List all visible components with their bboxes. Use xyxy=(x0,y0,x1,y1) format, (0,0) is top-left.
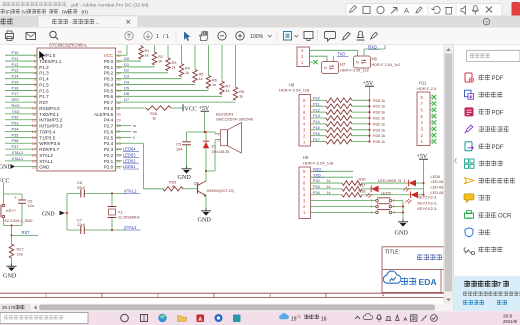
U1 pin 12 (INT0#/P3.2) xyxy=(5,119,37,121)
svg-text:P0.5: P0.5 xyxy=(104,88,114,93)
svg-text:10u: 10u xyxy=(28,203,35,208)
svg-text:1N4148-35: 1N4148-35 xyxy=(212,150,230,154)
svg-text:104: 104 xyxy=(176,146,183,151)
svg-text:P35: P35 xyxy=(12,132,19,137)
ground below Q5 xyxy=(205,195,207,208)
net labels LED64..LED61 on P2.3..P2.0 xyxy=(116,148,123,150)
svg-text:16: 16 xyxy=(321,316,327,322)
menu bar xyxy=(1,9,5,14)
VCC pin 40 wire xyxy=(116,54,128,56)
svg-text:rw: rw xyxy=(133,130,137,134)
svg-text:P0.0: P0.0 xyxy=(104,59,114,64)
svg-text:P33: P33 xyxy=(313,185,320,189)
svg-text:+: + xyxy=(14,195,17,200)
svg-text:P2.3: P2.3 xyxy=(104,147,114,152)
U1 pin 3 (P1.2) xyxy=(5,66,37,68)
svg-text:16: 16 xyxy=(32,141,36,146)
no-connect pin 1 xyxy=(310,61,314,63)
svg-text:D3: D3 xyxy=(124,74,130,79)
svg-text:7: 7 xyxy=(498,281,502,288)
svg-text:8: 8 xyxy=(34,94,36,99)
wire RXD (H9) xyxy=(311,170,354,172)
svg-text:P2.0: P2.0 xyxy=(104,165,114,170)
svg-text:OCR: OCR xyxy=(498,214,512,220)
weather + tray xyxy=(279,313,289,319)
U1 pin 5 (P1.4) xyxy=(5,78,37,80)
svg-text:P13: P13 xyxy=(12,68,19,73)
svg-text:P14: P14 xyxy=(313,120,320,124)
svg-text:1k: 1k xyxy=(212,82,216,87)
svg-text:R33 1k: R33 1k xyxy=(373,128,385,132)
svg-text:TXD: TXD xyxy=(313,172,321,177)
svg-text:P16: P16 xyxy=(313,132,320,136)
tab bar xyxy=(0,16,520,28)
svg-text:RXD: RXD xyxy=(368,44,377,49)
svg-text:(V): (V) xyxy=(22,9,29,14)
svg-text:RXD/P3.0: RXD/P3.0 xyxy=(39,106,60,111)
svg-text:INT0#/P3.2: INT0#/P3.2 xyxy=(39,118,62,123)
U1 pin 11 (TXD/P3.1) xyxy=(5,113,37,115)
LED rail xyxy=(423,183,425,195)
svg-text:XTAL1: XTAL1 xyxy=(39,159,53,164)
resistor R6 1k pull-up on P0.5 xyxy=(116,89,209,91)
svg-text:HDR-F-2.54_1x2: HDR-F-2.54_1x2 xyxy=(372,63,401,67)
svg-text:XTAL1: XTAL1 xyxy=(12,156,24,161)
taskbar icons xyxy=(121,314,129,322)
svg-text:P32: P32 xyxy=(12,115,19,120)
U1 pin 15 (T1/P3.5) xyxy=(5,136,37,138)
vertical scrollbar xyxy=(444,45,453,305)
svg-text:P17: P17 xyxy=(12,91,19,96)
svg-text:?: ? xyxy=(485,20,488,25)
svg-text:1: 1 xyxy=(371,210,373,214)
svg-text:P1.6: P1.6 xyxy=(39,88,49,93)
svg-text:29.178: 29.178 xyxy=(2,305,16,310)
svg-text:STC89C52RC/40I-L: STC89C52RC/40I-L xyxy=(49,43,88,48)
resistor R30 1k on P12 xyxy=(311,111,327,113)
svg-text:X1: X1 xyxy=(118,209,123,214)
svg-text:e: e xyxy=(133,136,135,140)
svg-text:1k: 1k xyxy=(172,64,176,69)
svg-text:P0.1: P0.1 xyxy=(104,65,114,70)
push button KEY4 K2-3.6X6.1 on P37 xyxy=(311,211,376,213)
svg-text:P32: P32 xyxy=(313,179,320,183)
resistor R27 10k xyxy=(11,235,13,244)
svg-text:12: 12 xyxy=(32,117,36,122)
U1 pin 9 (RST) xyxy=(5,101,37,103)
svg-text:R36: R36 xyxy=(359,178,366,182)
VCC net flag xyxy=(182,104,184,111)
svg-text:3: 3 xyxy=(269,294,271,298)
LED5 (row P33) xyxy=(362,188,371,190)
svg-text:P0.7: P0.7 xyxy=(104,100,114,105)
svg-text:100%: 100% xyxy=(250,34,264,40)
svg-text:1: 1 xyxy=(156,34,159,40)
svg-text:1k: 1k xyxy=(239,94,243,99)
U1 pin 18 (XTAL2) xyxy=(5,154,37,156)
svg-text:R32 1k: R32 1k xyxy=(373,122,385,126)
svg-text:P2.2: P2.2 xyxy=(104,153,114,158)
svg-text:RXD: RXD xyxy=(12,103,20,108)
svg-text:1: 1 xyxy=(371,199,373,203)
crystal X1 11.0592MHz xyxy=(111,193,113,206)
U1 pin 17 (RD#/P3.7) xyxy=(5,148,37,150)
svg-text:P36: P36 xyxy=(12,138,19,143)
svg-text:P2.1: P2.1 xyxy=(104,159,114,164)
svg-text:2: 2 xyxy=(34,59,36,64)
resistor R1 1k pull-up on P0.0 xyxy=(116,60,142,62)
svg-text:D4: D4 xyxy=(124,79,130,84)
svg-text:GND: GND xyxy=(42,212,55,218)
svg-text:P34: P34 xyxy=(313,191,320,195)
svg-text:P12: P12 xyxy=(12,62,19,67)
resistor R4 1k pull-up on P0.3 xyxy=(116,78,182,80)
reset top wire xyxy=(4,193,23,195)
svg-text:KEY3 K2-3.: KEY3 K2-3. xyxy=(418,201,438,205)
svg-text:29: 29 xyxy=(117,117,121,122)
svg-text:R35 1k: R35 1k xyxy=(373,140,385,144)
svg-text:GND: GND xyxy=(178,174,192,181)
svg-text:VCC: VCC xyxy=(0,179,10,185)
resistor R26 1k to VCC flag xyxy=(116,107,147,109)
wire P2.4 to transistor base xyxy=(116,142,144,144)
svg-text:P0.3: P0.3 xyxy=(104,77,114,82)
resistor R2 1k pull-up on P0.1 xyxy=(116,66,155,68)
U1 pin 2 (T2EX/P1.1) xyxy=(5,60,37,62)
main toolbar xyxy=(0,28,520,45)
U1 pin 6 (P1.5) xyxy=(5,84,37,86)
svg-text:P33: P33 xyxy=(12,121,19,126)
mouse cursor xyxy=(39,51,46,61)
svg-text:LED64: LED64 xyxy=(123,147,136,152)
resistor R36 1k on P32 xyxy=(311,182,343,184)
buzzer +5V rail wire xyxy=(187,131,216,133)
svg-text:P34: P34 xyxy=(12,126,20,131)
U1 pin 8 (P1.7) xyxy=(5,95,37,97)
tools panel xyxy=(454,45,520,276)
push button KEY3 K2-3.6X6.1 on P36 xyxy=(311,206,376,208)
header H6 HDR-F-2.54_1x2 xyxy=(354,56,371,68)
svg-text:TXD: TXD xyxy=(12,109,20,114)
svg-text:KEY4 K2-3.: KEY4 K2-3. xyxy=(418,207,438,211)
svg-text:KEY?: KEY? xyxy=(6,208,17,213)
diode D1 1N4148 xyxy=(205,132,207,141)
svg-text:.pdf - Adobe Acrobat Pro DC (3: .pdf - Adobe Acrobat Pro DC (32-bit) xyxy=(70,2,149,8)
svg-text:RD#/P3.7: RD#/P3.7 xyxy=(39,147,59,152)
resistor R37 1k on P33 xyxy=(311,188,343,190)
U1 pin 1 (T2/P1.0) xyxy=(5,54,37,56)
svg-text:1k: 1k xyxy=(158,58,162,63)
svg-text:5: 5 xyxy=(34,76,36,81)
svg-text:XTAL2: XTAL2 xyxy=(39,153,53,158)
svg-text:LED-0805_R_1: LED-0805_R_1 xyxy=(378,178,406,183)
LED (row P34) xyxy=(362,194,411,196)
svg-text:RST: RST xyxy=(12,97,20,102)
U1 pin 4 (P1.3) xyxy=(5,72,37,74)
svg-text:rs: rs xyxy=(133,124,136,128)
resistor R7 1k pull-up on P0.6 xyxy=(116,95,223,97)
svg-text:H9: H9 xyxy=(303,155,309,160)
capacitor C6 10u electrolytic xyxy=(21,194,23,200)
svg-text:A: A xyxy=(198,317,202,323)
svg-text:P11: P11 xyxy=(313,102,319,106)
svg-text:1: 1 xyxy=(371,205,373,209)
resistor R5 1k pull-up on P0.4 xyxy=(116,84,196,86)
svg-text:R29 1k: R29 1k xyxy=(373,105,385,109)
svg-text:N: N xyxy=(356,61,359,65)
left vertical wire + ground xyxy=(66,193,68,230)
svg-text:19: 19 xyxy=(291,316,297,322)
svg-text:RXD: RXD xyxy=(313,166,321,171)
svg-text:R30 1k: R30 1k xyxy=(373,111,385,115)
U1 pin 16 (WR#/P3.6) xyxy=(5,142,37,144)
LED D (row P32) xyxy=(362,182,408,184)
svg-text:P0.2: P0.2 xyxy=(104,71,114,76)
svg-text:P2.5: P2.5 xyxy=(104,135,114,140)
resistor R29 1k on P11 xyxy=(311,105,327,107)
svg-text:P0.6: P0.6 xyxy=(104,94,114,99)
svg-text:1k: 1k xyxy=(199,76,203,81)
svg-text:VCC: VCC xyxy=(185,106,197,112)
svg-text:R31 1k: R31 1k xyxy=(373,117,385,121)
svg-text:P2.7: P2.7 xyxy=(104,124,114,129)
svg-text:11: 11 xyxy=(32,112,36,117)
capacitor C8 22pf xyxy=(80,189,82,197)
window title bar xyxy=(0,0,520,16)
svg-text:PDF: PDF xyxy=(492,111,504,117)
svg-text:PDF: PDF xyxy=(492,76,504,82)
svg-text:T0/P3.4: T0/P3.4 xyxy=(39,129,55,134)
document pane xyxy=(0,45,444,304)
svg-text:RST: RST xyxy=(39,100,48,105)
svg-text:11.0592MHz: 11.0592MHz xyxy=(118,215,140,220)
svg-text:H6: H6 xyxy=(372,57,378,62)
svg-text:TXD/P3.1: TXD/P3.1 xyxy=(39,112,59,117)
EasyEDA logo xyxy=(383,271,401,283)
svg-text:VCC: VCC xyxy=(104,53,114,58)
svg-text:P1.4: P1.4 xyxy=(39,77,49,82)
svg-text:P4.4: P4.4 xyxy=(104,118,114,123)
wire TXD net xyxy=(310,55,328,57)
svg-text:GMC1205YA-16R2048: GMC1205YA-16R2048 xyxy=(216,118,253,122)
svg-text:LED62: LED62 xyxy=(123,158,136,163)
header H7 HDR-F-2.54_1x2 xyxy=(322,62,339,74)
U1 pin 13 (INT1#/P3.3) xyxy=(5,125,37,127)
wire XTAL top xyxy=(67,192,126,194)
svg-text:TITLE:: TITLE: xyxy=(385,249,400,255)
svg-text:P15: P15 xyxy=(313,126,320,130)
svg-text:P37: P37 xyxy=(12,144,19,149)
svg-text:HDR-F-2.54_1x8: HDR-F-2.54_1x8 xyxy=(279,88,310,93)
resistor R32 1k on P14 xyxy=(311,123,327,125)
screenshot annotation toolbar xyxy=(346,4,502,17)
svg-text:WR#/P3.6: WR#/P3.6 xyxy=(39,141,60,146)
svg-text:1k: 1k xyxy=(226,88,230,93)
svg-text:4: 4 xyxy=(382,294,384,298)
svg-text:RST: RST xyxy=(22,230,31,235)
svg-text:D1: D1 xyxy=(212,144,217,149)
wire RXD to top xyxy=(363,49,365,56)
svg-text:HDR-F-2.54_1x8: HDR-F-2.54_1x8 xyxy=(303,161,334,166)
svg-text:BUZZER1: BUZZER1 xyxy=(216,112,234,117)
svg-text:13: 13 xyxy=(32,123,36,128)
svg-text:1k: 1k xyxy=(327,191,331,195)
svg-text:17: 17 xyxy=(32,147,36,152)
svg-text:D5: D5 xyxy=(124,85,130,90)
svg-text:LED61: LED61 xyxy=(123,164,136,169)
U1 pin 10 (RXD/P3.0) xyxy=(5,107,37,109)
svg-text:H7: H7 xyxy=(340,62,346,67)
svg-text:P15: P15 xyxy=(12,79,19,84)
svg-text:D6: D6 xyxy=(124,91,130,96)
resistor R3 1k pull-up on P0.2 xyxy=(116,72,169,74)
svg-text:R28 1k: R28 1k xyxy=(373,99,385,103)
svg-text:LED6: LED6 xyxy=(431,175,441,179)
svg-text:TXD: TXD xyxy=(337,51,345,56)
svg-text:INT1#/P3.3: INT1#/P3.3 xyxy=(39,124,62,129)
svg-text:P10: P10 xyxy=(12,50,20,55)
U1 pin 7 (P1.6) xyxy=(5,89,37,91)
push button KEY2 K2-3.6X6.1 on P35 xyxy=(311,200,376,202)
svg-text:A: A xyxy=(404,6,409,15)
svg-text:7: 7 xyxy=(34,88,36,93)
svg-text:EDA: EDA xyxy=(419,277,437,287)
svg-text:N: N xyxy=(324,66,327,70)
key common to ground xyxy=(402,201,404,219)
resistor R38 1k on P34 xyxy=(311,194,343,196)
resistor R33 1k on P15 xyxy=(311,129,327,131)
capacitor C7 22pf xyxy=(80,226,82,234)
svg-text:19: 19 xyxy=(32,158,36,163)
svg-text:P4.6: P4.6 xyxy=(104,106,114,111)
svg-text:KEY2 K2-3.: KEY2 K2-3. xyxy=(418,195,438,199)
svg-text:1: 1 xyxy=(45,294,47,298)
svg-text:1: 1 xyxy=(218,132,220,136)
svg-text:3: 3 xyxy=(34,65,36,70)
svg-text:P10: P10 xyxy=(313,97,320,101)
wire RXD net xyxy=(310,49,358,51)
svg-text:PDF: PDF xyxy=(492,145,504,151)
reset bottom node xyxy=(4,225,23,227)
svg-text:10k: 10k xyxy=(17,252,23,257)
svg-text:P1.2: P1.2 xyxy=(39,65,49,70)
svg-text:P1.7: P1.7 xyxy=(39,94,49,99)
svg-text:1k: 1k xyxy=(327,185,331,189)
svg-text:XTAL2: XTAL2 xyxy=(124,225,137,230)
trial banner xyxy=(454,276,520,311)
ground below R27 xyxy=(11,258,13,264)
svg-text:P2.4: P2.4 xyxy=(104,141,114,146)
svg-text:K2-3.6X6.1_SMD: K2-3.6X6.1_SMD xyxy=(5,219,33,223)
svg-text:P1.5: P1.5 xyxy=(39,82,49,87)
svg-text:P14: P14 xyxy=(12,74,20,79)
svg-text:A: A xyxy=(404,317,408,323)
svg-text:XTAL2: XTAL2 xyxy=(12,150,24,155)
svg-text:1: 1 xyxy=(34,53,36,58)
svg-text:(F): (F) xyxy=(6,9,12,14)
svg-text:LED-08: LED-08 xyxy=(431,186,444,190)
svg-text:22pf: 22pf xyxy=(77,222,85,227)
svg-text:(H): (H) xyxy=(82,9,89,14)
resistor R35 1k on P17 xyxy=(311,141,327,143)
svg-text:H8: H8 xyxy=(289,82,295,87)
svg-text:ALE/P4.5: ALE/P4.5 xyxy=(94,112,114,117)
svg-text:°C: °C xyxy=(297,315,301,319)
net labels rs rw e on P2.7 P2.6 P2.5 xyxy=(116,125,132,127)
svg-text:R37: R37 xyxy=(359,184,366,188)
svg-text:XTAL1: XTAL1 xyxy=(124,188,137,193)
svg-text:D0: D0 xyxy=(124,56,130,61)
svg-text:2N3904(SOT-23): 2N3904(SOT-23) xyxy=(207,189,234,193)
svg-text:22pf: 22pf xyxy=(77,185,85,190)
svg-text:GND: GND xyxy=(395,230,409,237)
U1 pin 19 (XTAL1) xyxy=(5,160,37,162)
U1 pin 14 (T0/P3.4) xyxy=(5,131,37,133)
svg-text:LED-08: LED-08 xyxy=(431,180,444,184)
svg-text:/ 1: / 1 xyxy=(163,34,169,40)
svg-text:P17: P17 xyxy=(313,138,320,142)
svg-text:GND: GND xyxy=(3,273,17,280)
svg-text:GND: GND xyxy=(198,217,212,224)
svg-text:1k: 1k xyxy=(152,116,156,121)
svg-text:2: 2 xyxy=(218,138,220,142)
svg-text:P2.6: P2.6 xyxy=(104,129,114,134)
title block xyxy=(382,247,444,293)
svg-text:D2: D2 xyxy=(124,68,130,73)
svg-text:P12: P12 xyxy=(313,108,320,112)
svg-text:D7: D7 xyxy=(124,97,130,102)
svg-text:6: 6 xyxy=(34,82,36,87)
svg-text:LED63: LED63 xyxy=(123,152,136,157)
svg-text:LED-08: LED-08 xyxy=(431,191,444,195)
svg-text:R38: R38 xyxy=(359,189,366,193)
resistor R31 1k on P13 xyxy=(311,117,327,119)
svg-text:P13: P13 xyxy=(313,114,320,118)
H8 pull-up rail xyxy=(369,100,371,141)
svg-text:2021/9/: 2021/9/ xyxy=(503,319,518,324)
taskbar xyxy=(0,311,520,325)
svg-text:R34 1k: R34 1k xyxy=(373,134,385,138)
svg-text:GND: GND xyxy=(0,165,12,171)
serial header cluster H5 xyxy=(297,47,310,67)
svg-text:P11: P11 xyxy=(12,56,19,61)
svg-text:GND: GND xyxy=(39,165,50,170)
resistor R8 1k pull-up on P0.7 xyxy=(116,101,236,103)
capacitor C5 104 xyxy=(186,132,188,141)
sheet frame bottom xyxy=(0,292,444,294)
red recorder button at screen edge xyxy=(512,2,520,17)
svg-text:15: 15 xyxy=(32,135,36,140)
svg-text:2: 2 xyxy=(157,294,159,298)
resistor R28 1k on P10 xyxy=(311,99,327,101)
svg-text:P16: P16 xyxy=(12,85,19,90)
wire TXD (H9) xyxy=(311,176,354,178)
resistor R34 1k on P16 xyxy=(311,135,327,137)
svg-text:T1/P3.5: T1/P3.5 xyxy=(39,135,55,140)
svg-text:9: 9 xyxy=(34,100,36,105)
svg-text:1k: 1k xyxy=(185,70,189,75)
svg-text:H11: H11 xyxy=(419,81,427,86)
svg-text:P1.3: P1.3 xyxy=(39,71,49,76)
status row xyxy=(0,304,453,312)
svg-text:...: ... xyxy=(96,20,100,26)
wire XTAL bottom xyxy=(67,229,126,231)
svg-text:18: 18 xyxy=(32,153,36,158)
svg-text:D1: D1 xyxy=(124,62,130,67)
svg-text:HDR-F-2.5: HDR-F-2.5 xyxy=(417,86,437,91)
svg-text:P0.4: P0.4 xyxy=(104,82,114,87)
svg-text:HDR-F-2.54_1x2: HDR-F-2.54_1x2 xyxy=(340,69,369,73)
